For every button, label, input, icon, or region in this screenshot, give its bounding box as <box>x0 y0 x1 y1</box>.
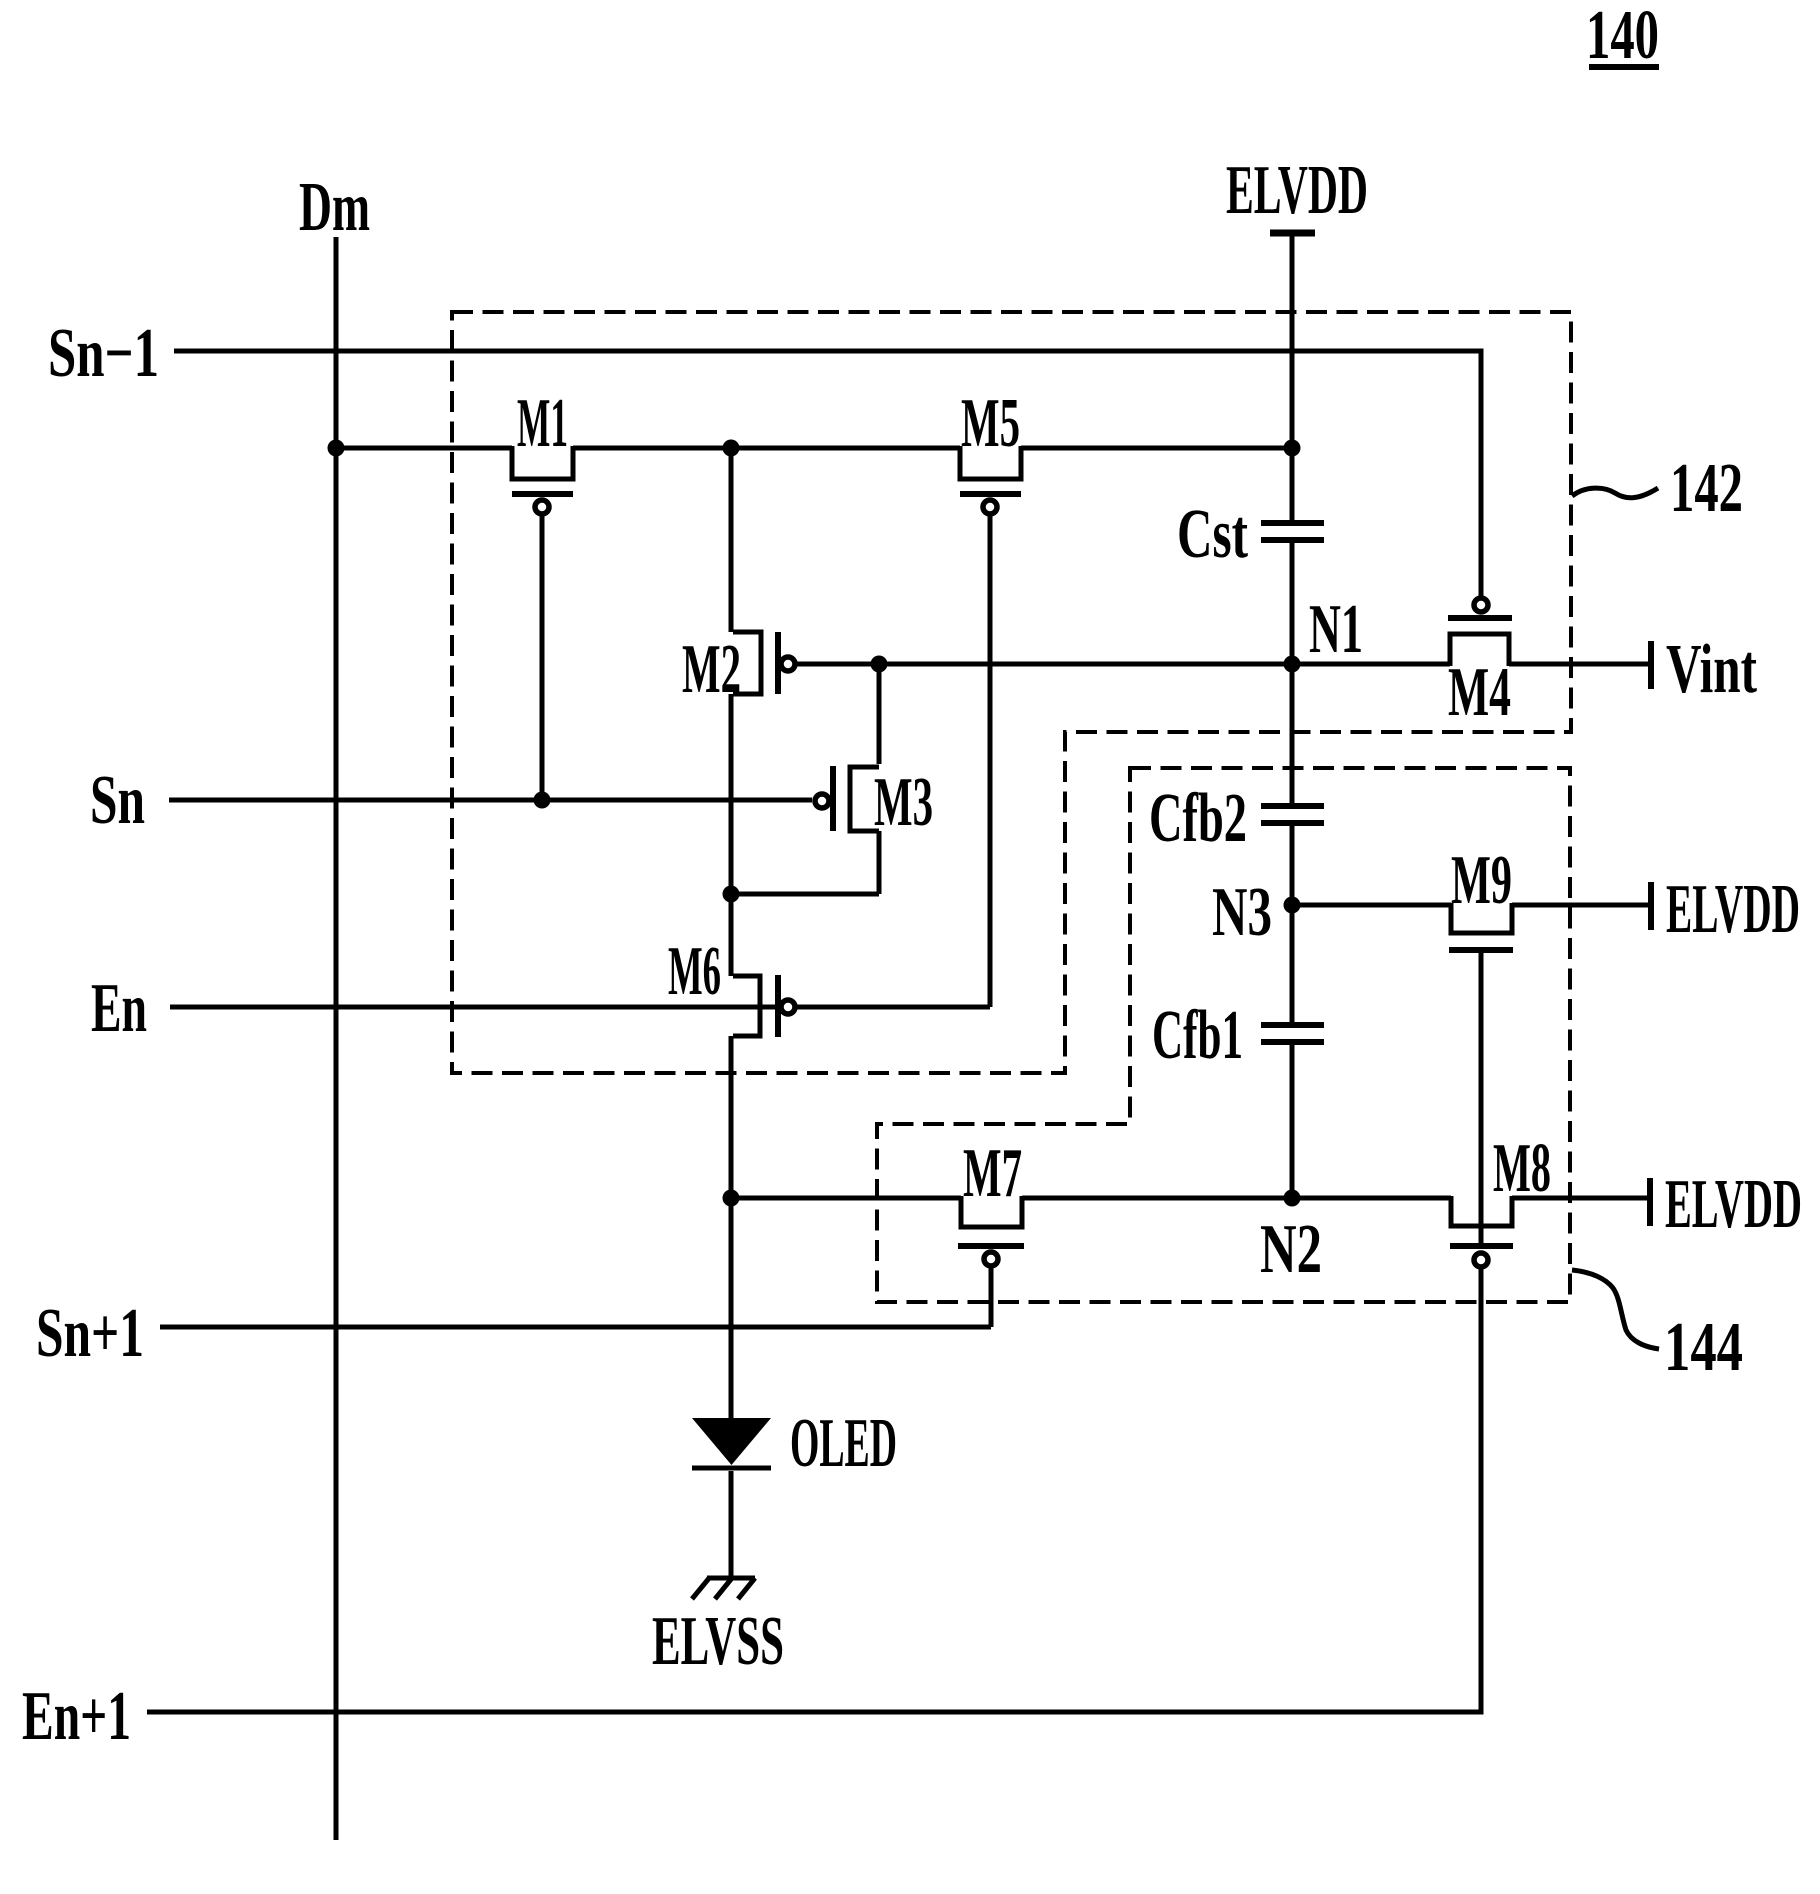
svg-text:En+1: En+1 <box>22 1678 131 1755</box>
wire Sn+1 scan line <box>160 1325 991 1330</box>
svg-text:ELVSS: ELVSS <box>652 1603 784 1680</box>
wire M4 drain to Vint <box>1509 662 1648 667</box>
node M6 bottom junction <box>723 1190 740 1207</box>
wire M2 gate to N1 row <box>795 662 1450 667</box>
wire M7-N2-M8 row <box>731 1196 1647 1201</box>
wire En+1 emission line <box>147 1269 1481 1712</box>
node N1 <box>1284 591 1364 673</box>
leader squiggle 144 <box>1572 1270 1659 1349</box>
transistor M1 <box>512 385 573 800</box>
leader squiggle 142 <box>1572 488 1658 498</box>
wire ELVDD column Cst to N1 to Cfb2 <box>1290 543 1295 803</box>
ground ELVSS <box>652 1577 784 1680</box>
wire M9 gate down to M8 <box>1479 950 1484 1246</box>
svg-text:Sn−1: Sn−1 <box>48 315 159 392</box>
svg-text:M9: M9 <box>1451 842 1512 919</box>
node M2 gate junction <box>871 656 888 673</box>
wire ELVDD column Cfb1 to N2 <box>1290 1045 1295 1198</box>
transistor M2 <box>682 631 795 708</box>
terminal ELVDD (M9) <box>1651 871 1800 948</box>
dashed box 144 <box>877 768 1570 1302</box>
svg-text:M4: M4 <box>1448 654 1511 731</box>
wire OLED column (M2/M6/M7 junctions down to diode) <box>729 448 734 1418</box>
transistor M8 <box>1450 1130 1551 1267</box>
wire ELVDD column Cfb2 to N3 to Cfb1 <box>1290 826 1295 1022</box>
capacitor Cfb1 <box>1152 997 1324 1074</box>
svg-text:Cst: Cst <box>1177 496 1248 573</box>
svg-text:Cfb2: Cfb2 <box>1149 780 1247 857</box>
svg-text:N2: N2 <box>1260 1211 1322 1288</box>
figure number 140 <box>1586 0 1659 74</box>
svg-text:OLED: OLED <box>790 1405 897 1482</box>
svg-text:Sn+1: Sn+1 <box>36 1295 144 1372</box>
transistor M4 <box>1448 598 1512 731</box>
svg-text:ELVDD: ELVDD <box>1666 871 1800 948</box>
svg-text:M1: M1 <box>517 385 568 462</box>
svg-text:Dm: Dm <box>299 169 370 246</box>
wire N3 to M9 <box>1292 903 1451 908</box>
svg-text:M6: M6 <box>668 933 721 1010</box>
svg-text:140: 140 <box>1586 0 1659 74</box>
terminal ELVDD (M8) <box>1650 1166 1802 1243</box>
wire Sn-1 scan line <box>174 351 1481 597</box>
wire Sn scan line <box>169 798 812 803</box>
capacitor Cfb2 <box>1149 780 1324 857</box>
terminal Vint <box>1651 631 1757 708</box>
svg-text:M7: M7 <box>963 1135 1022 1212</box>
svg-text:Sn: Sn <box>90 762 145 839</box>
transistor M6 <box>668 933 795 1037</box>
svg-text:N3: N3 <box>1212 874 1272 951</box>
svg-text:M5: M5 <box>961 385 1020 462</box>
svg-text:En: En <box>91 970 147 1047</box>
svg-text:M3: M3 <box>874 764 933 841</box>
node Dm tap <box>328 440 345 457</box>
wire Dm data line vertical <box>334 237 339 1840</box>
wire OLED cathode to ground <box>729 1471 734 1578</box>
svg-text:ELVDD: ELVDD <box>1665 1166 1802 1243</box>
svg-text:142: 142 <box>1670 450 1743 527</box>
transistor M7 <box>958 1135 1024 1327</box>
diode OLED <box>692 1405 897 1482</box>
node N3 <box>1212 874 1301 951</box>
wire M2 drain to M3 node column <box>877 664 882 894</box>
wire M3 bottom to OLED column <box>731 892 879 897</box>
svg-text:N1: N1 <box>1309 591 1363 668</box>
svg-text:ELVDD: ELVDD <box>1226 152 1368 229</box>
transistor M3 <box>815 764 933 841</box>
svg-text:Vint: Vint <box>1666 631 1757 708</box>
capacitor Cst <box>1177 496 1324 573</box>
wire En emission line <box>170 1005 990 1010</box>
svg-text:144: 144 <box>1664 1309 1743 1386</box>
wire M1-M5 source row <box>336 446 1292 451</box>
node OLED column top <box>723 440 740 457</box>
transistor M5 <box>960 385 1021 1007</box>
node N2 <box>1260 1190 1322 1289</box>
node ELVDD row junction <box>1284 440 1301 457</box>
svg-text:Cfb1: Cfb1 <box>1152 997 1243 1074</box>
wire ELVDD column upper <box>1290 233 1295 520</box>
svg-text:M8: M8 <box>1493 1130 1551 1207</box>
ELVDD terminal bar <box>1270 230 1315 237</box>
node M1 gate on Sn <box>534 792 551 809</box>
wire M9 drain to ELVDD <box>1512 903 1648 908</box>
node M3 bottom junction <box>723 886 740 903</box>
dashed box 142 <box>452 312 1571 1073</box>
transistor M9 <box>1449 842 1513 950</box>
